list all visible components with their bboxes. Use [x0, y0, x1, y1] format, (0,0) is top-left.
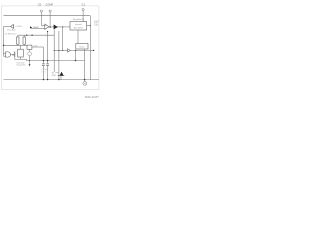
wire COMP pin drop: [49, 12, 51, 27]
wire osc circle bottom: [29, 56, 31, 65]
wire: [47, 66, 49, 80]
node mid rail b: [47, 60, 48, 61]
wire: [4, 55, 6, 57]
node mid rail a: [43, 60, 44, 61]
node gate bus c: [62, 50, 63, 51]
wire box2 down: [84, 49, 86, 80]
box regulator: [70, 22, 87, 31]
resistor R2: [23, 37, 25, 44]
wire VIN pin drop: [82, 11, 84, 22]
svg-text:Regulator Blk: Regulator Blk: [73, 18, 84, 21]
capacitor C2: [46, 63, 49, 65]
svg-text:Driver: Driver: [79, 46, 84, 49]
node mid rail c: [75, 60, 76, 61]
node bottom b: [47, 79, 48, 80]
wire: [17, 44, 19, 45]
arrow ramp: [30, 26, 32, 28]
wire: [42, 66, 44, 80]
comparator U2 pwm: [45, 24, 49, 29]
and gate U4: [6, 52, 11, 57]
node comp out: [49, 26, 50, 27]
wire bottom ground rail: [4, 79, 99, 81]
svg-text:GND: GND: [52, 75, 57, 77]
comparator minus mark: [45, 24, 46, 26]
wire: [23, 44, 25, 45]
wire box1 out: [87, 25, 91, 27]
wire vertical x58.9: [58, 31, 60, 80]
svg-text:CS 1n: CS 1n: [41, 71, 46, 73]
junction dots: [3, 25, 95, 80]
capacitor C2 plate: [46, 64, 49, 66]
wire node drop x75.5: [75, 50, 77, 60]
svg-text:5V Reference: 5V Reference: [5, 32, 17, 35]
node bottom d: [84, 79, 85, 80]
wire divider rail y35.2: [18, 34, 54, 36]
svg-text:Bias UVLO: Bias UVLO: [74, 27, 84, 29]
capacitor C1 plate: [42, 64, 45, 66]
node bus end: [93, 50, 94, 51]
oscillator current source: [28, 52, 32, 56]
wire rail y45.3: [4, 44, 28, 46]
svg-text:CS: CS: [38, 3, 42, 7]
node osc top: [47, 31, 48, 32]
wire top rail VCC: [4, 15, 91, 17]
svg-text:N1: N1: [52, 72, 54, 74]
node divider a: [26, 35, 27, 36]
wire opamp out: [4, 26, 11, 28]
node bottom a: [43, 79, 44, 80]
wire driver output: [57, 26, 70, 28]
node osc cross: [29, 60, 30, 61]
border frame: [1, 6, 99, 90]
node divider b: [31, 35, 32, 36]
node gate bus a: [54, 50, 55, 51]
svg-text:RAMP: RAMP: [33, 26, 39, 29]
wire buffer out to node: [70, 49, 93, 51]
wire CS pin drop: [41, 12, 44, 25]
wire vertical x62.7: [62, 27, 64, 51]
wire left bus: [3, 27, 5, 57]
node gate bus t: [75, 50, 76, 51]
svg-text:CT 100p: CT 100p: [41, 69, 47, 71]
wire gate out: [10, 54, 14, 56]
wire box1 to box2: [77, 30, 79, 44]
wire diode down: [60, 76, 62, 80]
wire osc net x47.6: [47, 31, 49, 64]
driver buffer filled: [54, 25, 58, 30]
gate buffer U3: [68, 49, 71, 52]
capacitor bar: [14, 52, 16, 58]
svg-text:G1: G1: [81, 3, 85, 7]
wire gate bus y50.4: [54, 49, 67, 51]
box driver: [76, 44, 88, 50]
wire R2 stubs: [23, 35, 25, 37]
wire latch top feed: [20, 45, 22, 49]
wire and gate inputs: [4, 52, 6, 54]
current arrow: [29, 64, 31, 66]
capacitor C1: [42, 63, 45, 65]
wire osc circle top: [29, 49, 31, 51]
wire comparator output: [49, 26, 54, 28]
wire ref bubble stub: [84, 80, 86, 82]
pin VIN circle: [82, 9, 84, 11]
wire y59.4: [15, 57, 27, 61]
resistor R1: [17, 37, 19, 44]
wire vertical x54.7: [53, 29, 55, 72]
ref bubble 4: [83, 82, 87, 86]
node bottom c: [58, 79, 59, 80]
diode bar: [58, 75, 65, 77]
svg-text:Charge Est.: Charge Est.: [16, 64, 26, 67]
node gate bus b: [58, 50, 59, 51]
wire opamp input stubs: [12, 24, 15, 26]
svg-text:Internal: Internal: [75, 23, 82, 26]
wire R1 stubs: [17, 35, 19, 37]
node bus rail45: [3, 45, 4, 46]
wire gate link: [55, 72, 59, 74]
wire latch bottom: [20, 57, 22, 59]
latch box: [18, 49, 24, 57]
wire clk to ramp: [32, 46, 44, 48]
wire ramp cap net x43.4: [42, 47, 44, 64]
wire right vertical x90.3: [89, 16, 91, 80]
node x62.7 top: [62, 26, 63, 27]
clock box: [27, 45, 32, 49]
svg-text:8045-30157: 8045-30157: [85, 95, 99, 99]
svg-text:Error Amp: Error Amp: [7, 29, 15, 32]
junction dot gate out: [13, 54, 14, 55]
diode D1: [60, 72, 64, 76]
svg-text:+ 1.25V: + 1.25V: [15, 26, 23, 28]
op-amp U1 error amp: [11, 24, 14, 28]
svg-text:COMP: COMP: [45, 3, 53, 7]
pin COMP circle: [49, 10, 51, 12]
wire mid rail y60.6: [27, 60, 85, 62]
wire ramp input: [30, 27, 44, 29]
node box1 out: [90, 25, 91, 26]
wire: [12, 27, 15, 29]
pin CS circle: [40, 10, 42, 12]
